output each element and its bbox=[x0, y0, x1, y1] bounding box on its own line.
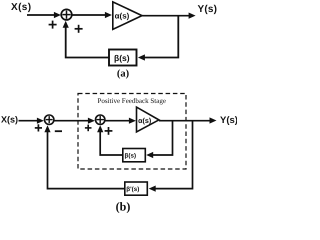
svg-text:β(s): β(s) bbox=[114, 53, 130, 63]
svg-text:β(s): β(s) bbox=[125, 153, 137, 160]
svg-text:Y(s): Y(s) bbox=[198, 4, 218, 15]
svg-text:α(s): α(s) bbox=[115, 11, 130, 20]
svg-text:Y(s): Y(s) bbox=[220, 115, 237, 126]
svg-text:(a): (a) bbox=[117, 69, 130, 80]
svg-text:X(s): X(s) bbox=[1, 115, 18, 125]
svg-text:α(s): α(s) bbox=[138, 116, 152, 125]
svg-text:β'(s): β'(s) bbox=[126, 186, 139, 193]
svg-text:(b): (b) bbox=[116, 200, 131, 213]
svg-text:Positive Feedback Stage: Positive Feedback Stage bbox=[98, 97, 166, 105]
svg-text:X(s): X(s) bbox=[11, 2, 32, 13]
